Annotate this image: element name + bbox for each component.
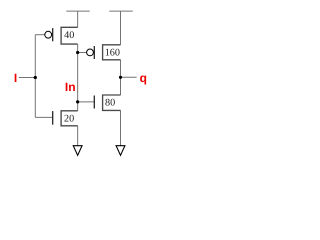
svg-text:I: I <box>14 71 17 85</box>
svg-text:In: In <box>65 80 76 94</box>
svg-text:q: q <box>140 71 147 85</box>
svg-text:20: 20 <box>64 114 74 125</box>
svg-text:80: 80 <box>105 97 115 108</box>
svg-text:40: 40 <box>64 30 74 41</box>
svg-text:160: 160 <box>105 48 120 59</box>
